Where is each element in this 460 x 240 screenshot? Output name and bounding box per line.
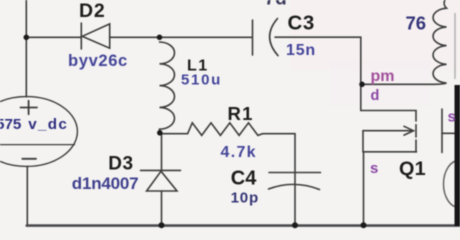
node L1 bottom xyxy=(157,130,163,136)
diode D2 xyxy=(81,23,109,49)
node top-left xyxy=(24,35,30,41)
node pm xyxy=(359,82,365,88)
wire pm node to transformer xyxy=(362,83,434,85)
node Q1 source ground xyxy=(361,222,367,228)
svg-text:byv26c: byv26c xyxy=(68,51,128,70)
svg-text:15n: 15n xyxy=(286,42,316,59)
mosfet Q1 source path xyxy=(363,131,417,152)
mosfet Q1 drain wire xyxy=(361,111,416,122)
chord line across source xyxy=(0,144,75,146)
svg-text:C3: C3 xyxy=(288,11,315,34)
dark bar right edge xyxy=(455,85,460,226)
gate lead right xyxy=(442,132,456,134)
grey line right xyxy=(454,13,456,79)
minus sign xyxy=(22,158,36,160)
node L1 top xyxy=(157,35,163,41)
mosfet Q1 body arrow xyxy=(363,126,414,135)
svg-text:4.7k: 4.7k xyxy=(221,144,257,161)
transformer winding xyxy=(433,0,446,84)
gate bar right xyxy=(441,109,443,153)
diode D3 xyxy=(141,133,181,225)
wire R1 corner down through C4 xyxy=(294,134,296,225)
capacitor C4 xyxy=(269,173,321,190)
svg-text:pm: pm xyxy=(371,68,395,85)
mosfet Q1 channel dashes xyxy=(415,125,417,152)
wire C3 to corner and down to pm node xyxy=(275,37,361,110)
wire top rail left segment xyxy=(26,36,80,38)
svg-text:C4: C4 xyxy=(231,168,257,190)
svg-text:575: 575 xyxy=(0,116,22,133)
svg-text:510u: 510u xyxy=(181,71,222,88)
wire D2 to L1 xyxy=(110,36,160,38)
wire Q1 source down xyxy=(363,152,365,225)
svg-text:d1n4007: d1n4007 xyxy=(72,174,139,193)
svg-text:Q1: Q1 xyxy=(399,158,426,180)
plus sign xyxy=(21,101,38,114)
svg-text:s: s xyxy=(448,109,456,126)
svg-text:D3: D3 xyxy=(108,154,133,175)
svg-text:10p: 10p xyxy=(231,190,259,207)
svg-text:R1: R1 xyxy=(228,103,254,124)
inductor L1 xyxy=(160,42,175,133)
svg-text:7d: 7d xyxy=(265,0,287,10)
capacitor C3 xyxy=(253,19,279,56)
svg-text:d: d xyxy=(371,88,380,104)
junction node dots xyxy=(24,35,367,229)
resistor R1 xyxy=(160,123,296,136)
svg-text:s: s xyxy=(370,160,378,177)
wire source bottom down xyxy=(26,166,28,225)
ground rail bottom xyxy=(27,224,460,227)
node C4 ground xyxy=(292,222,298,228)
node D3 ground xyxy=(159,222,165,228)
svg-text:v_dc: v_dc xyxy=(28,116,68,133)
wire L1 to C3 xyxy=(160,36,253,38)
svg-text:76: 76 xyxy=(406,13,427,34)
wire top-left vertical xyxy=(25,0,27,97)
gate drive source ellipse xyxy=(444,161,460,208)
voltage source V1 circle xyxy=(0,97,77,167)
svg-text:D2: D2 xyxy=(79,0,106,22)
